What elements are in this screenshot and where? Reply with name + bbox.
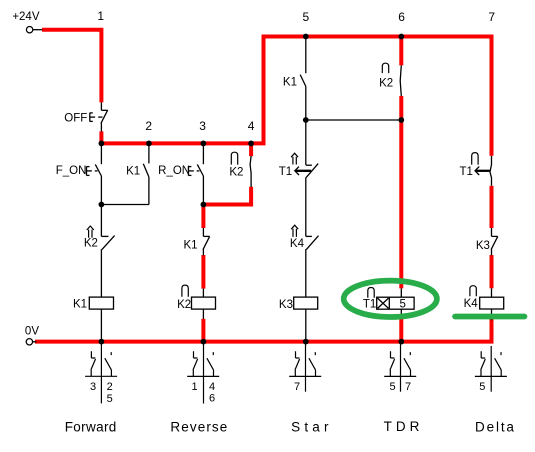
svg-text:K4: K4	[290, 238, 305, 250]
svg-text:7: 7	[294, 381, 300, 393]
svg-text:K4: K4	[464, 298, 479, 310]
svg-text:K3: K3	[476, 240, 490, 252]
svg-text:T1: T1	[279, 166, 292, 178]
svg-text:TDR: TDR	[384, 419, 424, 434]
svg-text:T1: T1	[363, 298, 376, 310]
svg-text:4: 4	[209, 381, 215, 393]
svg-text:5: 5	[303, 10, 310, 24]
svg-text:K1: K1	[283, 77, 297, 89]
svg-text:+24V: +24V	[12, 11, 40, 23]
svg-text:2: 2	[145, 119, 152, 133]
svg-text:K3: K3	[279, 299, 293, 311]
svg-text:Delta: Delta	[475, 419, 516, 434]
svg-text:Reverse: Reverse	[170, 419, 228, 434]
svg-text:K2: K2	[84, 238, 98, 250]
svg-text:T1: T1	[459, 166, 472, 178]
svg-text:F_ON: F_ON	[56, 165, 87, 177]
svg-text:K1: K1	[73, 298, 87, 310]
svg-text:4: 4	[248, 119, 255, 133]
svg-text:6: 6	[209, 392, 215, 404]
svg-text:5: 5	[479, 381, 485, 393]
svg-text:7: 7	[405, 381, 411, 393]
svg-text:K2: K2	[379, 77, 393, 89]
svg-text:Star: Star	[291, 419, 333, 434]
svg-text:3: 3	[90, 381, 96, 393]
svg-text:K1: K1	[184, 239, 198, 251]
svg-text:5: 5	[399, 298, 405, 310]
svg-text:Forward: Forward	[65, 419, 117, 434]
svg-text:K2: K2	[177, 299, 191, 311]
svg-text:K1: K1	[126, 166, 140, 178]
svg-text:5: 5	[389, 381, 395, 393]
svg-text:1: 1	[191, 381, 197, 393]
svg-text:2: 2	[107, 381, 113, 393]
svg-text:6: 6	[398, 10, 405, 24]
svg-text:5: 5	[107, 393, 113, 405]
svg-text:K2: K2	[229, 166, 243, 178]
svg-text:7: 7	[488, 10, 495, 24]
svg-text:OFF: OFF	[64, 112, 87, 124]
svg-text:3: 3	[199, 119, 206, 133]
svg-text:1: 1	[97, 9, 104, 23]
svg-text:R_ON: R_ON	[158, 165, 190, 177]
svg-text:0V: 0V	[25, 326, 39, 338]
